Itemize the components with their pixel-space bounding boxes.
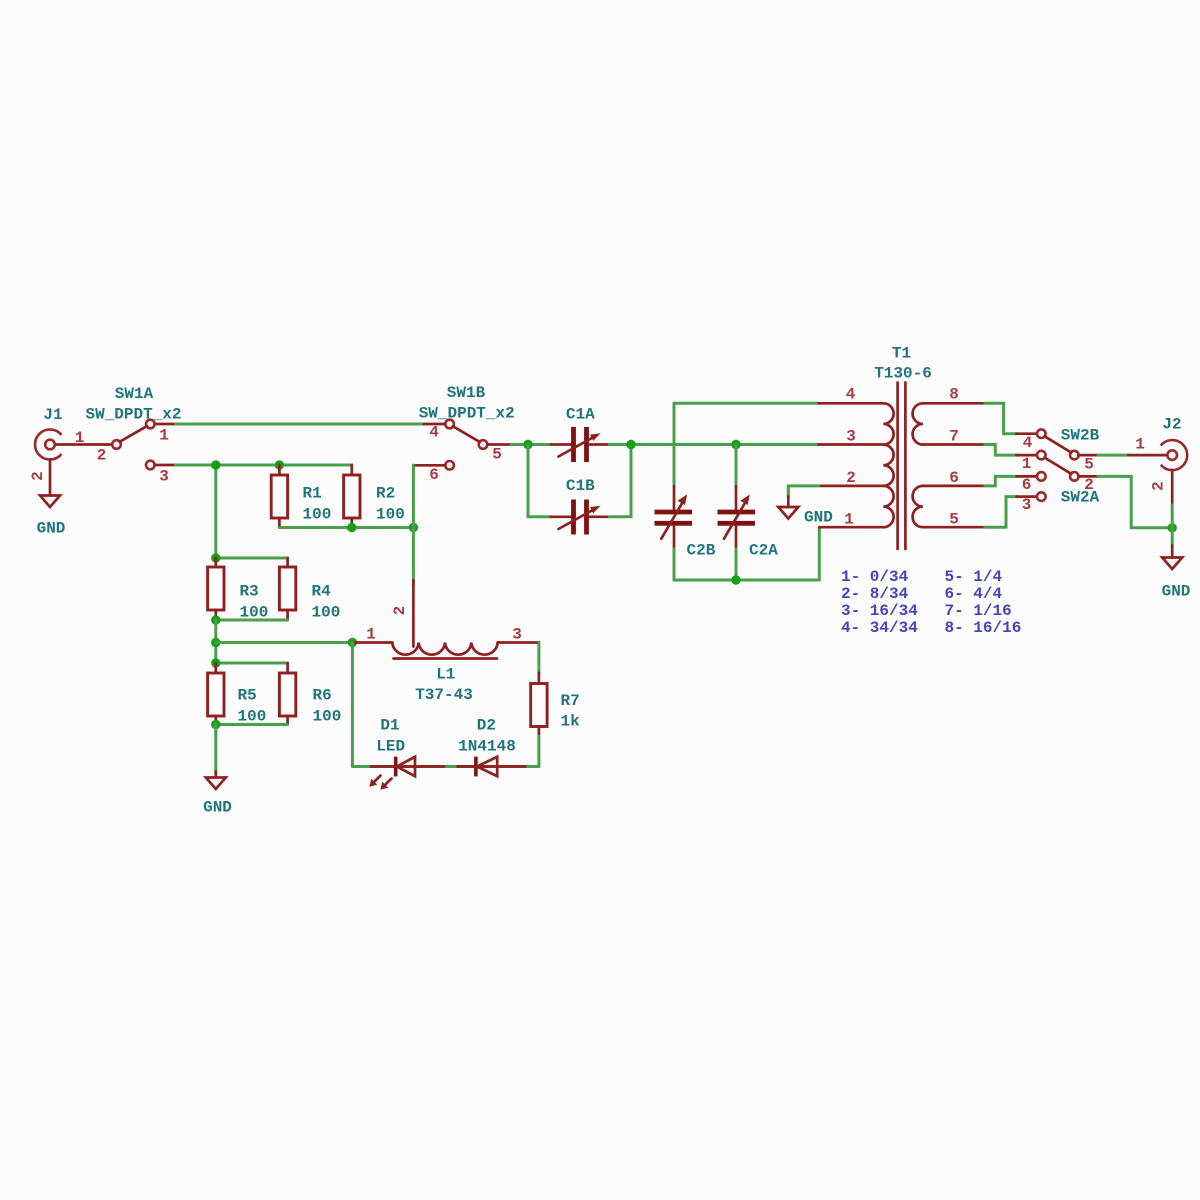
svg-text:GND: GND bbox=[37, 520, 66, 538]
wire R3/R4 top bbox=[216, 557, 288, 560]
junction bbox=[348, 638, 357, 647]
svg-text:2: 2 bbox=[1150, 481, 1168, 491]
junction bbox=[626, 440, 635, 449]
wire R3/R4 bottom bbox=[216, 619, 288, 622]
connector J2 bbox=[1129, 440, 1188, 505]
svg-text:R7: R7 bbox=[561, 692, 580, 710]
svg-text:1: 1 bbox=[1022, 455, 1032, 473]
wire SW1A pin1 to SW1B pin4 bbox=[176, 423, 424, 426]
svg-text:T37-43: T37-43 bbox=[415, 686, 473, 704]
svg-text:R3: R3 bbox=[240, 583, 259, 601]
wire C2B riser bottom bbox=[673, 549, 676, 580]
svg-text:5: 5 bbox=[1084, 456, 1094, 474]
switch SW2B bbox=[1017, 429, 1099, 480]
wire SW2B pin 5 to J2 pin 1 bbox=[1098, 454, 1129, 457]
svg-text:T130-6: T130-6 bbox=[874, 365, 932, 383]
wire L1 pin3 down to R7 bbox=[537, 643, 540, 673]
svg-text:8: 8 bbox=[949, 386, 959, 404]
capacitor C2B bbox=[655, 486, 693, 549]
wire node down (L1 pin 2 net) bbox=[412, 575, 415, 585]
svg-text:LED: LED bbox=[376, 738, 405, 756]
wire R7 bottom to D2 bbox=[537, 736, 540, 766]
junction bbox=[211, 460, 220, 469]
wire top rail to T1 pin 4 bbox=[674, 402, 819, 405]
junction bbox=[275, 460, 284, 469]
resistor R3 bbox=[208, 558, 224, 620]
junction bbox=[1168, 523, 1177, 532]
wire R5/R6 top bbox=[216, 662, 288, 665]
svg-text:1: 1 bbox=[75, 429, 85, 447]
svg-text:6: 6 bbox=[949, 469, 959, 487]
wire diode row bbox=[352, 765, 539, 768]
connector J1 bbox=[35, 430, 112, 496]
svg-text:4: 4 bbox=[429, 424, 439, 442]
svg-text:5: 5 bbox=[492, 446, 502, 464]
svg-text:SW_DPDT_x2: SW_DPDT_x2 bbox=[85, 406, 181, 424]
wire left branch vertical bbox=[214, 465, 217, 558]
resistor R6 bbox=[279, 663, 295, 725]
svg-text:3- 16/34: 3- 16/34 bbox=[841, 602, 918, 620]
wire T1 pin 6 to SW2B pin 6 bbox=[985, 476, 1017, 486]
junction bbox=[731, 575, 740, 584]
svg-text:GND: GND bbox=[1162, 583, 1191, 601]
capacitor C1B bbox=[551, 500, 610, 535]
wire SW1B pin5 to C1A bbox=[511, 443, 551, 446]
junction bbox=[409, 523, 418, 532]
svg-text:3: 3 bbox=[846, 428, 856, 446]
wire branch down to L1 row bbox=[214, 620, 217, 663]
svg-text:7- 1/16: 7- 1/16 bbox=[945, 602, 1012, 620]
svg-text:6- 4/4: 6- 4/4 bbox=[945, 585, 1003, 603]
svg-text:8- 16/16: 8- 16/16 bbox=[945, 619, 1022, 637]
wire R1/R2 bottoms to L1 pin2 node bbox=[279, 526, 413, 529]
junction bbox=[347, 523, 356, 532]
svg-text:100: 100 bbox=[303, 506, 332, 524]
svg-text:1k: 1k bbox=[561, 713, 581, 731]
ground at J2 bbox=[1162, 546, 1182, 570]
svg-text:C1B: C1B bbox=[566, 477, 595, 495]
svg-text:C2A: C2A bbox=[749, 542, 778, 560]
resistor R2 bbox=[344, 465, 360, 528]
svg-text:D2: D2 bbox=[477, 717, 496, 735]
switch SW2A bbox=[1017, 451, 1099, 501]
svg-text:R1: R1 bbox=[303, 485, 322, 503]
junction bbox=[211, 658, 220, 667]
svg-text:100: 100 bbox=[313, 708, 342, 726]
svg-text:C2B: C2B bbox=[687, 542, 716, 560]
junction bbox=[211, 720, 220, 729]
junction bbox=[211, 638, 220, 647]
junction bbox=[211, 615, 220, 624]
switch SW1B bbox=[413, 420, 511, 470]
svg-text:R5: R5 bbox=[238, 687, 257, 705]
svg-text:2: 2 bbox=[391, 606, 409, 616]
svg-text:SW_DPDT_x2: SW_DPDT_x2 bbox=[419, 405, 515, 423]
svg-text:R4: R4 bbox=[312, 583, 332, 601]
svg-text:3: 3 bbox=[1022, 496, 1032, 514]
junction bbox=[731, 440, 740, 449]
wire to L1 pin 1 bbox=[216, 641, 353, 644]
wire SW2A pin 2 to ground node bbox=[1098, 476, 1172, 527]
svg-text:J1: J1 bbox=[43, 406, 62, 424]
wire T1 pin 5 to SW2A pin 3 bbox=[985, 497, 1017, 528]
svg-text:5: 5 bbox=[949, 511, 959, 529]
wire down to ground bbox=[214, 725, 217, 772]
wire rail up to T1 pin 1 bbox=[818, 527, 821, 580]
svg-text:T1: T1 bbox=[892, 345, 911, 363]
svg-text:1N4148: 1N4148 bbox=[458, 738, 516, 756]
svg-text:1: 1 bbox=[844, 511, 854, 529]
wire R5/R6 bottom bbox=[216, 723, 288, 726]
svg-text:100: 100 bbox=[238, 708, 267, 726]
svg-text:100: 100 bbox=[312, 604, 341, 622]
resistor R5 bbox=[208, 663, 224, 725]
svg-text:SW2B: SW2B bbox=[1061, 427, 1100, 445]
svg-text:SW1A: SW1A bbox=[115, 385, 154, 403]
svg-text:L1: L1 bbox=[436, 666, 455, 684]
wire C1 loop right riser bbox=[609, 445, 631, 517]
capacitor C2A bbox=[718, 486, 756, 549]
wire SW1A pin3 to R1/R2 tops bbox=[176, 464, 352, 467]
resistor R4 bbox=[279, 558, 295, 620]
ground left bbox=[206, 772, 226, 790]
svg-text:R2: R2 bbox=[376, 485, 395, 503]
svg-text:2: 2 bbox=[846, 469, 856, 487]
capacitor C1A bbox=[551, 427, 610, 462]
svg-text:2: 2 bbox=[1084, 476, 1094, 494]
diode D1 LED bbox=[369, 757, 444, 790]
wire bottom rail bbox=[674, 579, 819, 582]
svg-text:3: 3 bbox=[512, 625, 522, 643]
svg-text:R6: R6 bbox=[313, 687, 332, 705]
svg-text:4: 4 bbox=[1023, 434, 1033, 452]
svg-text:6: 6 bbox=[1022, 476, 1032, 494]
wire C2A riser top bbox=[735, 445, 738, 487]
inductor L1 bbox=[352, 580, 539, 659]
wire T1 pin 8 to SW2B pin 4 bbox=[985, 403, 1017, 433]
wire J2 pin 2 to ground bbox=[1171, 505, 1174, 546]
svg-text:D1: D1 bbox=[380, 717, 399, 735]
svg-text:4- 34/34: 4- 34/34 bbox=[841, 619, 918, 637]
ground at T1 pin 2 bbox=[778, 497, 798, 519]
svg-text:1: 1 bbox=[1135, 436, 1145, 454]
wire C2A riser bottom bbox=[735, 549, 738, 580]
svg-text:GND: GND bbox=[203, 799, 232, 817]
switch SW1A bbox=[112, 420, 175, 470]
wire C2B riser top bbox=[673, 403, 676, 486]
svg-text:1: 1 bbox=[159, 427, 169, 445]
svg-text:2: 2 bbox=[97, 447, 107, 465]
svg-text:7: 7 bbox=[949, 428, 959, 446]
diode D2 bbox=[458, 757, 526, 777]
junction bbox=[211, 553, 220, 562]
svg-text:3: 3 bbox=[159, 468, 169, 486]
svg-text:SW1B: SW1B bbox=[447, 384, 486, 402]
svg-text:6: 6 bbox=[429, 466, 439, 484]
ground at J1 bbox=[40, 496, 60, 508]
wire C1 loop left riser bbox=[528, 445, 551, 517]
wire T1 pin 2 to ground bbox=[788, 486, 818, 497]
svg-text:4: 4 bbox=[846, 386, 856, 404]
wire T1 pin 7 to SW2A pin 1 bbox=[985, 445, 1017, 456]
svg-text:1: 1 bbox=[366, 625, 376, 643]
resistor R1 bbox=[271, 465, 287, 528]
svg-text:5- 1/4: 5- 1/4 bbox=[945, 568, 1003, 586]
transformer T1 bbox=[819, 383, 985, 550]
svg-text:1- 0/34: 1- 0/34 bbox=[841, 568, 909, 586]
svg-text:C1A: C1A bbox=[566, 406, 595, 424]
wire C1 output to T1 pin 3 bbox=[609, 443, 818, 446]
svg-text:J2: J2 bbox=[1162, 416, 1181, 434]
junction bbox=[523, 440, 532, 449]
svg-text:2: 2 bbox=[29, 471, 47, 481]
svg-text:2- 8/34: 2- 8/34 bbox=[841, 585, 909, 603]
wire SW1B pin6 down to node bbox=[412, 465, 415, 575]
svg-text:100: 100 bbox=[376, 506, 405, 524]
wire L1 pin1 node down bbox=[351, 643, 354, 767]
resistor R7 bbox=[531, 673, 547, 737]
svg-text:GND: GND bbox=[804, 508, 833, 526]
